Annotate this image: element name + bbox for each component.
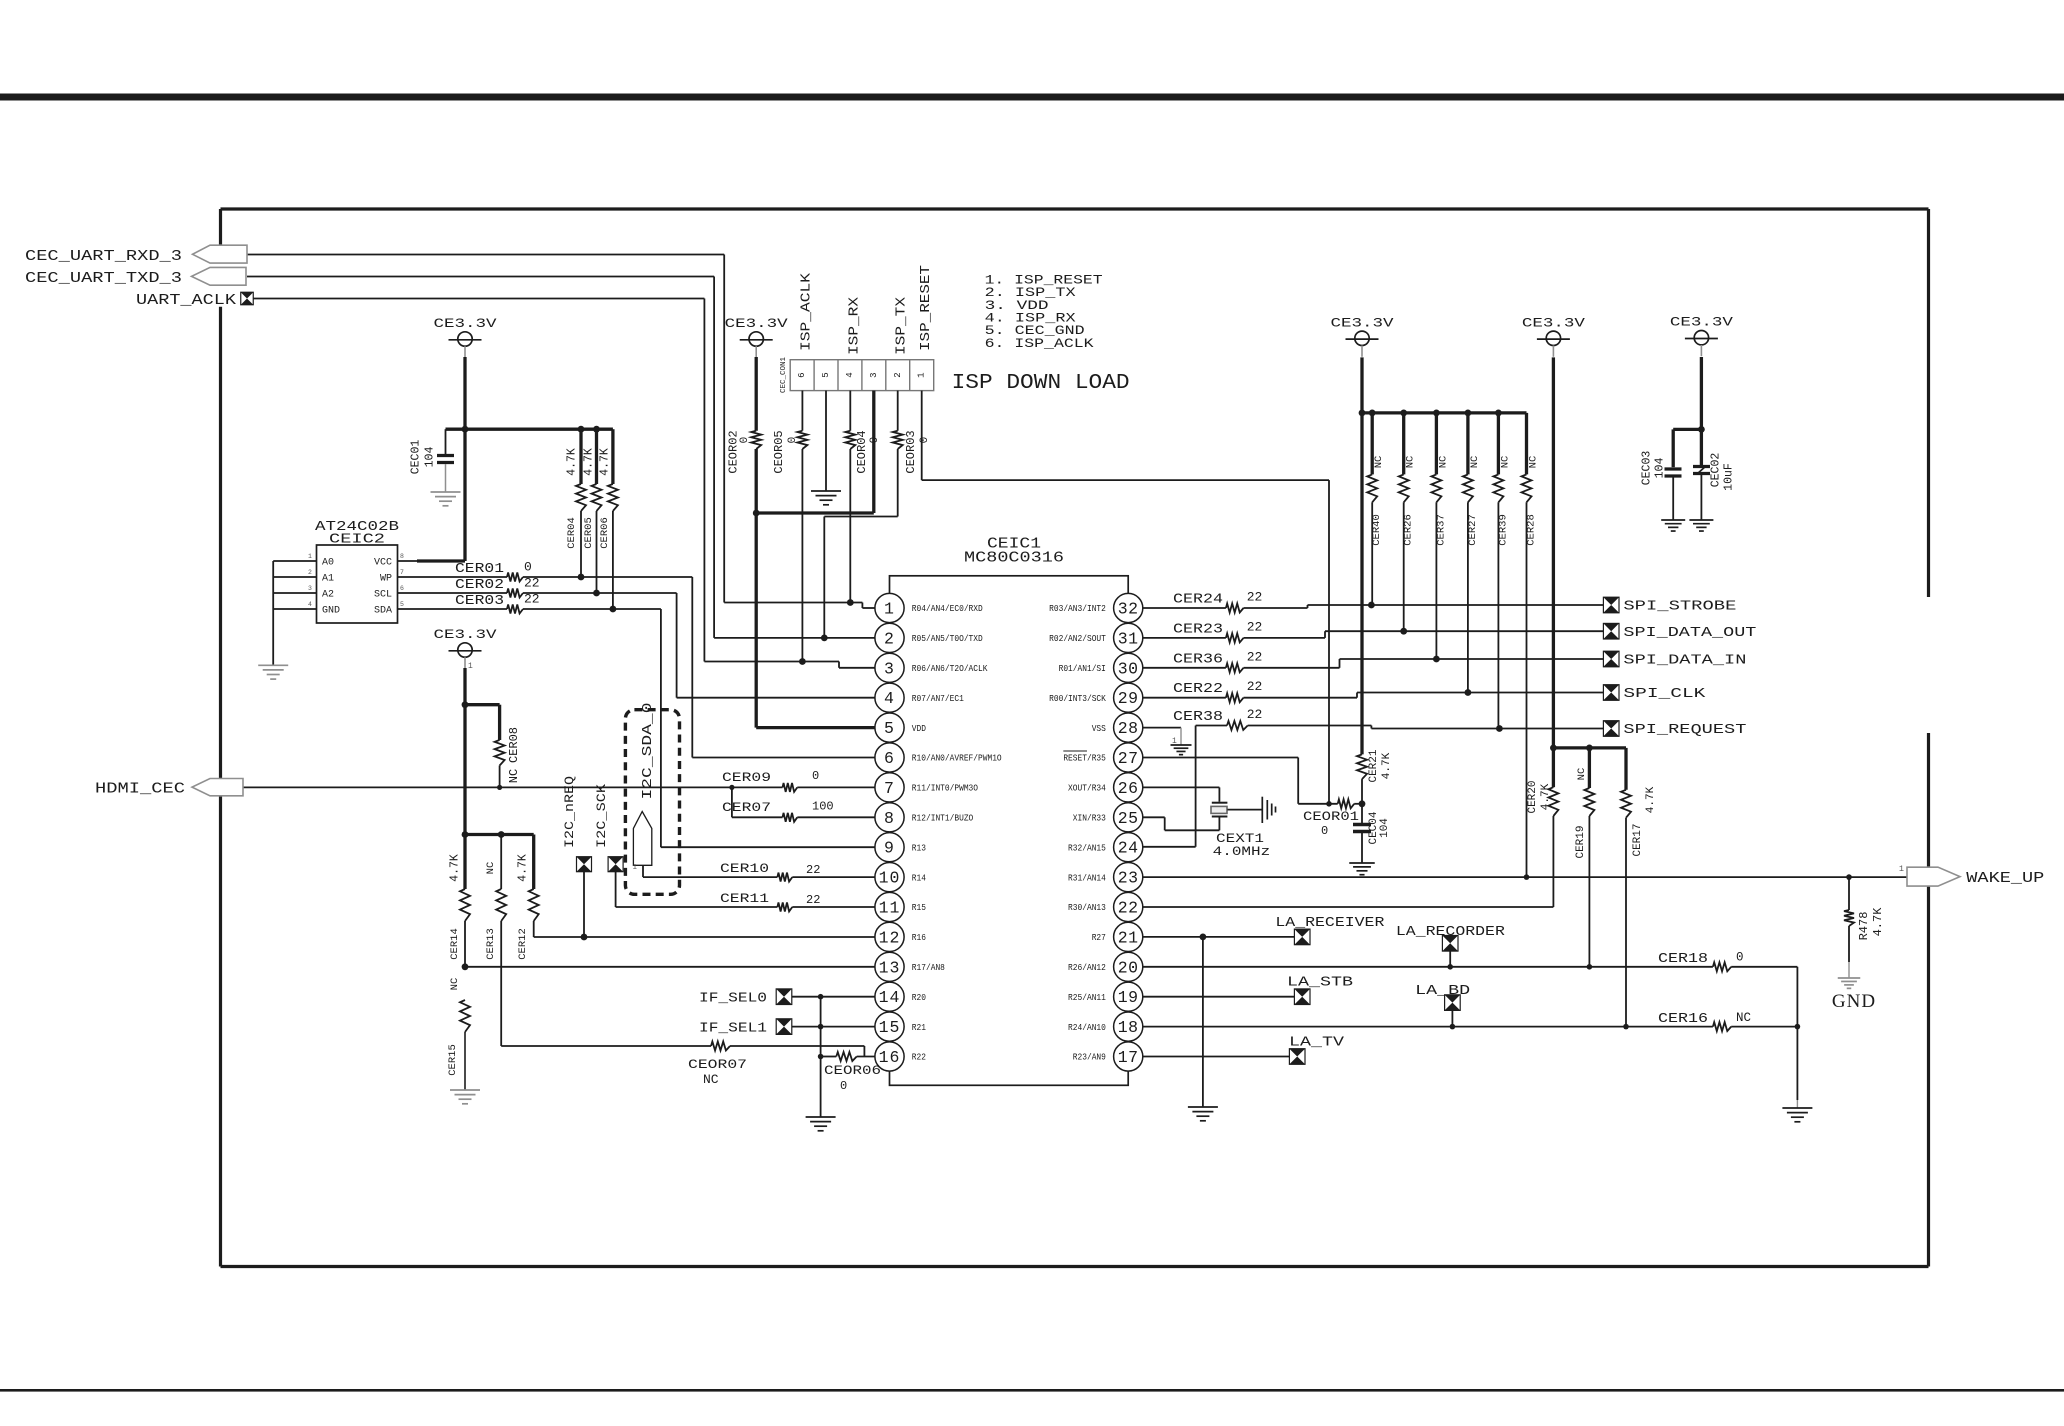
svg-text:CER23: CER23 xyxy=(1173,622,1223,637)
svg-text:R17/AN8: R17/AN8 xyxy=(912,962,945,973)
resistor CER19 NC xyxy=(1575,748,1594,970)
svg-text:4.7K: 4.7K xyxy=(599,448,612,476)
svg-text:NC: NC xyxy=(1528,456,1540,469)
wire+resistor CER22 22 / port SPI_CLK xyxy=(1143,679,1706,702)
svg-text:4.7K: 4.7K xyxy=(449,854,462,882)
svg-text:NC: NC xyxy=(449,978,461,991)
wire+resistor CER36 22 / port SPI_DATA_IN xyxy=(1143,649,1747,672)
wire connector pin5 to ground xyxy=(825,391,827,491)
wire decoupling rail (thick) xyxy=(1673,357,1705,467)
wire connector pin3 VDD (thick) xyxy=(756,391,874,513)
port I2C_SCK xyxy=(595,783,777,907)
IC CEIC1 left pins 1-16 xyxy=(875,593,1002,1071)
resistor CEOR06 0 xyxy=(818,1052,881,1093)
connector CEC_CON1 (ISP header) xyxy=(780,357,934,394)
wire pull-up branch (thick) xyxy=(465,831,534,838)
svg-text:CER02: CER02 xyxy=(455,577,504,593)
svg-text:CE3.3V: CE3.3V xyxy=(1522,316,1586,330)
svg-text:22: 22 xyxy=(1247,707,1263,722)
svg-text:NC: NC xyxy=(1576,768,1588,781)
svg-text:104: 104 xyxy=(424,447,437,468)
resistor CER11 22 (to pin11) xyxy=(720,891,875,912)
svg-text:CER20: CER20 xyxy=(1527,780,1539,813)
ground (CER15) xyxy=(450,1090,480,1104)
svg-text:NC: NC xyxy=(1437,456,1449,469)
svg-text:4.7K: 4.7K xyxy=(583,448,596,476)
bottom rule xyxy=(0,1389,2064,1392)
svg-text:CE3.3V: CE3.3V xyxy=(1670,316,1734,330)
svg-text:8: 8 xyxy=(400,553,404,560)
wire+resistor CER38 22 / port SPI_REQUEST xyxy=(1143,707,1747,847)
svg-text:R07/AN7/EC1: R07/AN7/EC1 xyxy=(912,693,964,704)
svg-text:CER21: CER21 xyxy=(1368,749,1380,782)
ground (CEC01) xyxy=(431,492,461,506)
wire CE3.3V rail (thick vertical) xyxy=(462,668,469,889)
svg-text:NC: NC xyxy=(485,862,497,875)
svg-text:ISP_RX: ISP_RX xyxy=(848,297,863,355)
resistor CEOR05 0 (ISP_ACLK series) xyxy=(772,391,807,662)
svg-text:R15: R15 xyxy=(912,902,926,913)
svg-text:LA_BD: LA_BD xyxy=(1415,984,1470,999)
wire pin17 to LA_TV xyxy=(1143,1056,1290,1058)
svg-text:0: 0 xyxy=(1321,824,1328,838)
svg-text:CER39: CER39 xyxy=(1497,514,1509,546)
wire pin19 to LA_STB xyxy=(1143,996,1295,998)
svg-text:GND: GND xyxy=(322,606,340,617)
svg-text:R11/INT0/PWM3O: R11/INT0/PWM3O xyxy=(912,783,979,794)
svg-text:R32/AN15: R32/AN15 xyxy=(1068,842,1106,853)
svg-text:R16: R16 xyxy=(912,932,926,943)
wire IF_SEL strap to ground xyxy=(820,997,822,1117)
svg-text:CER10: CER10 xyxy=(720,861,769,876)
svg-text:R26/AN12: R26/AN12 xyxy=(1068,962,1106,973)
svg-text:CEOR04: CEOR04 xyxy=(855,430,869,473)
svg-text:22: 22 xyxy=(524,576,540,591)
svg-text:4.7K: 4.7K xyxy=(1871,907,1885,937)
svg-text:3: 3 xyxy=(869,372,879,377)
svg-text:NC: NC xyxy=(1499,456,1511,469)
sheet border xyxy=(221,209,1929,1267)
svg-text:4.7K: 4.7K xyxy=(1540,783,1552,810)
ground (EEPROM A0-A2/GND) xyxy=(258,665,288,679)
svg-text:SPI_STROBE: SPI_STROBE xyxy=(1623,599,1736,615)
svg-text:10: 10 xyxy=(879,869,901,888)
svg-text:CEOR01: CEOR01 xyxy=(1303,809,1359,824)
svg-text:CER18: CER18 xyxy=(1658,952,1708,967)
svg-text:CEC03: CEC03 xyxy=(1641,451,1654,486)
svg-text:CE3.3V: CE3.3V xyxy=(434,317,498,331)
power CE3.3V (ISP rail) xyxy=(725,317,789,358)
svg-text:ISP_RESET: ISP_RESET xyxy=(919,265,934,351)
svg-text:32: 32 xyxy=(1118,600,1139,619)
svg-text:NC: NC xyxy=(1736,1011,1751,1025)
svg-text:R478: R478 xyxy=(1857,912,1871,941)
wire CE3.3V to VCC (thick) xyxy=(398,357,469,561)
svg-text:R14: R14 xyxy=(912,872,927,883)
resistor CER17 4.7K xyxy=(1621,748,1657,1030)
port WAKE_UP xyxy=(1899,864,2044,887)
wire wake rail (thick) xyxy=(1550,357,1626,751)
svg-text:CER06: CER06 xyxy=(599,517,611,549)
svg-text:SCL: SCL xyxy=(374,590,392,601)
port UART_ACLK xyxy=(136,292,253,309)
port LA_RECEIVER xyxy=(1275,916,1384,945)
svg-text:10uF: 10uF xyxy=(1723,463,1736,491)
svg-text:R27: R27 xyxy=(1092,932,1106,943)
resistor CER06 4.7K xyxy=(599,429,618,612)
port HDMI_CEC xyxy=(95,779,783,798)
ground (R478) xyxy=(1838,978,1861,988)
wire XIN pin25 to crystal xyxy=(1143,817,1220,830)
port LA_BD xyxy=(1415,984,1470,1027)
wire pull-up rail (thick) xyxy=(446,426,613,433)
wire WAKE_UP net (pin23) xyxy=(1143,874,1907,880)
svg-text:CEC_UART_TXD_3: CEC_UART_TXD_3 xyxy=(25,271,182,287)
svg-text:SPI_DATA_OUT: SPI_DATA_OUT xyxy=(1623,625,1756,641)
svg-text:11: 11 xyxy=(879,899,901,918)
svg-text:CER37: CER37 xyxy=(1435,514,1447,546)
port I2C_nREQ xyxy=(563,776,592,940)
port LA_STB xyxy=(1287,976,1353,1005)
resistor CER13 NC xyxy=(485,835,506,1047)
power CE3.3V (decoupling) xyxy=(1670,316,1734,357)
svg-text:1: 1 xyxy=(1899,864,1904,874)
svg-text:22: 22 xyxy=(806,863,820,877)
svg-text:ISP_ACLK: ISP_ACLK xyxy=(800,272,815,351)
resistor CEOR03 0 (ISP_TX series) xyxy=(824,391,931,638)
svg-text:30: 30 xyxy=(1118,659,1139,678)
svg-text:I2C_nREQ: I2C_nREQ xyxy=(563,776,577,848)
ground (CEC02) xyxy=(1689,520,1713,531)
svg-text:1: 1 xyxy=(917,372,927,377)
svg-text:31: 31 xyxy=(1118,629,1139,648)
svg-text:12: 12 xyxy=(879,928,901,947)
port IF_SEL0 xyxy=(699,989,875,1007)
svg-text:XIN/R33: XIN/R33 xyxy=(1073,813,1106,824)
svg-text:LA_RECORDER: LA_RECORDER xyxy=(1396,925,1505,940)
svg-text:CER17: CER17 xyxy=(1632,823,1644,856)
svg-text:22: 22 xyxy=(806,893,820,907)
svg-text:CE3.3V: CE3.3V xyxy=(1331,316,1395,330)
wire pin28 VSS to ground xyxy=(1143,728,1181,746)
svg-text:HDMI_CEC: HDMI_CEC xyxy=(95,782,185,798)
svg-text:4.7K: 4.7K xyxy=(566,448,579,476)
label ISP_RESET (connector pin1) xyxy=(919,265,934,351)
svg-text:1: 1 xyxy=(884,600,895,619)
port CEC_UART_RXD_3 xyxy=(25,245,247,265)
svg-text:LA_RECEIVER: LA_RECEIVER xyxy=(1275,916,1384,931)
svg-text:CER40: CER40 xyxy=(1371,514,1383,546)
svg-text:CER26: CER26 xyxy=(1403,514,1415,546)
svg-text:4.7K: 4.7K xyxy=(517,854,530,882)
svg-text:CER38: CER38 xyxy=(1173,710,1223,725)
svg-text:CER01: CER01 xyxy=(455,561,504,577)
resistor CEOR07 NC xyxy=(501,1042,864,1088)
svg-text:5: 5 xyxy=(884,719,895,738)
svg-text:0: 0 xyxy=(1736,951,1744,965)
svg-text:0: 0 xyxy=(840,1079,847,1093)
svg-text:9: 9 xyxy=(884,839,895,858)
resistor CER03 22 (SDA net) xyxy=(398,592,876,848)
svg-text:SPI_CLK: SPI_CLK xyxy=(1623,686,1706,702)
wire RESET net / resistor CEOR01 0 xyxy=(1143,758,1362,839)
svg-text:13: 13 xyxy=(879,958,901,977)
svg-text:NC: NC xyxy=(1469,456,1481,469)
offpage I2C_SDA dashed box xyxy=(625,710,679,895)
svg-text:I2C_SCK: I2C_SCK xyxy=(595,783,609,848)
svg-text:CE3.3V: CE3.3V xyxy=(725,317,789,331)
svg-text:100: 100 xyxy=(812,800,834,814)
wire pin13 net xyxy=(465,966,875,968)
resistor CER09 0 (HDMI_CEC to pin7) xyxy=(722,769,875,792)
wire EEPROM address pins to ground xyxy=(273,561,316,665)
svg-text:VDD: VDD xyxy=(912,723,927,734)
resistor CER21 4.7K (reset pull-up) xyxy=(1357,749,1393,807)
resistor CER18 0 xyxy=(1658,951,1797,1027)
ground (VSS pin28) xyxy=(1171,745,1192,755)
capacitor CEC02 10uF xyxy=(1693,453,1736,520)
resistor CEOR02 0 (in CE3.3V drop, thick leads) xyxy=(727,357,876,728)
resistor CER05 4.7K xyxy=(583,429,602,596)
wire XOUT pin26 to crystal xyxy=(1143,787,1220,801)
wire LA strap ground xyxy=(1202,937,1204,1107)
svg-text:CER04: CER04 xyxy=(566,517,578,549)
svg-text:R31/AN14: R31/AN14 xyxy=(1068,872,1106,883)
svg-text:LA_STB: LA_STB xyxy=(1287,976,1353,991)
svg-text:22: 22 xyxy=(1247,590,1263,605)
svg-text:CEC_CON1: CEC_CON1 xyxy=(780,357,788,394)
svg-text:27: 27 xyxy=(1118,749,1139,768)
power CE3.3V (EEPROM rail) xyxy=(434,317,498,358)
svg-text:20: 20 xyxy=(1118,958,1139,977)
svg-text:104: 104 xyxy=(1379,818,1391,838)
svg-text:CEC01: CEC01 xyxy=(410,440,423,475)
svg-text:2: 2 xyxy=(884,629,895,648)
svg-text:CEIC2: CEIC2 xyxy=(329,532,385,548)
svg-text:CEC_UART_RXD_3: CEC_UART_RXD_3 xyxy=(25,249,182,265)
svg-text:4: 4 xyxy=(308,601,312,608)
svg-text:25: 25 xyxy=(1118,809,1139,828)
svg-text:1: 1 xyxy=(308,553,312,560)
title ISP DOWN LOAD xyxy=(952,372,1130,395)
svg-text:NC: NC xyxy=(1373,456,1385,469)
svg-text:WAKE_UP: WAKE_UP xyxy=(1966,871,2044,887)
label ISP_ACLK (connector pin6) xyxy=(800,272,815,351)
svg-text:5: 5 xyxy=(821,372,831,377)
svg-text:22: 22 xyxy=(1247,649,1263,664)
resistor CER08 NC xyxy=(465,705,521,790)
wire pin12 net xyxy=(534,936,875,938)
svg-text:23: 23 xyxy=(1118,869,1139,888)
svg-text:29: 29 xyxy=(1118,689,1139,708)
svg-text:CER09: CER09 xyxy=(722,770,771,785)
svg-text:CER15: CER15 xyxy=(447,1044,459,1076)
ground (LA strap) xyxy=(1188,1107,1218,1121)
svg-text:CEOR03: CEOR03 xyxy=(904,430,918,473)
svg-text:4.0MHz: 4.0MHz xyxy=(1213,844,1271,859)
resistor CER10 22 (to pin10) xyxy=(643,861,875,882)
svg-text:I2C_SDA_0: I2C_SDA_0 xyxy=(641,703,656,800)
wire UART_ACLK net xyxy=(253,299,875,668)
svg-text:CER19: CER19 xyxy=(1575,825,1587,858)
capacitor CEC01 104 xyxy=(410,429,455,492)
port LA_TV xyxy=(1289,1036,1345,1065)
port CEC_UART_TXD_3 xyxy=(25,267,246,287)
svg-text:4.7K: 4.7K xyxy=(1645,786,1657,813)
svg-text:CER27: CER27 xyxy=(1467,514,1479,546)
ground (CEC04) xyxy=(1349,863,1375,875)
svg-text:CER03: CER03 xyxy=(455,593,504,609)
svg-text:IF_SEL1: IF_SEL1 xyxy=(699,1022,767,1037)
svg-text:26: 26 xyxy=(1118,779,1139,798)
IC CEIC2 AT24C02B body xyxy=(315,519,399,623)
crystal CEXT1 4.0MHz xyxy=(1211,803,1270,859)
IC CEIC1 MC80C0316 body xyxy=(890,537,1129,1086)
svg-text:R30/AN13: R30/AN13 xyxy=(1068,902,1106,913)
svg-text:6: 6 xyxy=(884,749,895,768)
svg-text:1: 1 xyxy=(632,864,637,872)
svg-text:22: 22 xyxy=(1247,619,1263,634)
svg-text:LA_TV: LA_TV xyxy=(1289,1036,1345,1051)
wire CEC_UART_TXD_3 net xyxy=(247,277,875,642)
resistor CER14 4.7K xyxy=(449,854,471,970)
svg-text:7: 7 xyxy=(884,779,895,798)
svg-text:0: 0 xyxy=(812,769,819,783)
capacitor CEC04 104 xyxy=(1353,804,1391,863)
svg-text:16: 16 xyxy=(879,1048,901,1067)
resistor R478 4.7K xyxy=(1844,877,1885,978)
svg-text:4: 4 xyxy=(884,689,895,708)
svg-text:R23/AN9: R23/AN9 xyxy=(1073,1052,1106,1063)
svg-text:0: 0 xyxy=(787,437,799,444)
svg-text:CEC02: CEC02 xyxy=(1710,453,1723,488)
resistor CER15 NC (below CER14) xyxy=(447,978,470,1090)
svg-text:NC: NC xyxy=(1405,456,1417,469)
svg-text:CEOR06: CEOR06 xyxy=(824,1063,881,1078)
svg-text:R02/AN2/SOUT: R02/AN2/SOUT xyxy=(1049,633,1106,644)
ground (IF_SEL strap) xyxy=(806,1117,836,1131)
svg-text:CER28: CER28 xyxy=(1526,514,1538,546)
svg-text:3: 3 xyxy=(308,585,312,592)
svg-text:5: 5 xyxy=(400,601,404,608)
svg-text:8: 8 xyxy=(884,809,895,828)
svg-text:RESET/R35: RESET/R35 xyxy=(1063,753,1106,764)
svg-text:UART_ACLK: UART_ACLK xyxy=(136,293,236,309)
svg-text:CER36: CER36 xyxy=(1173,652,1223,667)
resistor CER02 22 (SCL net) xyxy=(398,576,876,698)
ground (ISP CEC_GND) xyxy=(811,491,841,505)
svg-text:R25/AN11: R25/AN11 xyxy=(1068,992,1106,1003)
svg-text:CER07: CER07 xyxy=(722,800,771,815)
svg-text:1: 1 xyxy=(468,662,473,671)
svg-text:CEOR05: CEOR05 xyxy=(772,430,786,473)
svg-text:24: 24 xyxy=(1118,839,1139,858)
svg-text:CE3.3V: CE3.3V xyxy=(434,628,498,642)
svg-text:28: 28 xyxy=(1118,719,1139,738)
svg-text:R10/AN0/AVREF/PWM1O: R10/AN0/AVREF/PWM1O xyxy=(912,753,1002,764)
wire NC bank rail (thick) xyxy=(1359,357,1527,754)
svg-text:R20: R20 xyxy=(912,992,926,1003)
wire pin18 net xyxy=(1143,1024,1713,1030)
wire+resistor CER23 22 / port SPI_DATA_OUT xyxy=(1143,619,1757,642)
port IF_SEL1 xyxy=(699,1019,875,1037)
svg-text:CER12: CER12 xyxy=(517,928,529,960)
svg-text:22: 22 xyxy=(524,592,540,607)
svg-text:SDA: SDA xyxy=(374,606,392,617)
svg-text:14: 14 xyxy=(879,988,901,1007)
svg-text:6: 6 xyxy=(400,585,404,592)
svg-text:R12/INT1/BUZO: R12/INT1/BUZO xyxy=(912,813,974,824)
ground (CER18/CER16) xyxy=(1782,1108,1812,1122)
resistor CER01 0 (WP net) xyxy=(398,560,876,758)
svg-text:R00/INT3/SCK: R00/INT3/SCK xyxy=(1049,693,1106,704)
svg-text:GND: GND xyxy=(1832,991,1876,1012)
IC CEIC2 pin labels xyxy=(308,553,404,617)
svg-text:21: 21 xyxy=(1118,928,1139,947)
svg-text:NC: NC xyxy=(507,769,521,783)
power CE3.3V (HDMI pull-up rail) xyxy=(434,628,498,671)
IC CEIC1 right pins 32-17 xyxy=(1049,593,1143,1071)
svg-text:NC: NC xyxy=(703,1072,719,1087)
offpage connector I2C_SDA arrow xyxy=(632,703,656,878)
svg-text:R21: R21 xyxy=(912,1022,927,1033)
ground (CEC03) xyxy=(1661,520,1685,531)
top title-block bar xyxy=(0,94,2064,101)
power CE3.3V (wake rail) xyxy=(1522,316,1586,357)
label ISP_TX (connector pin2) xyxy=(895,297,910,355)
svg-text:R22: R22 xyxy=(912,1052,926,1063)
svg-text:IF_SEL0: IF_SEL0 xyxy=(699,992,767,1007)
svg-text:CER08: CER08 xyxy=(507,727,521,763)
wire crystal case to earth xyxy=(1227,797,1275,823)
svg-text:22: 22 xyxy=(1118,899,1139,918)
svg-text:A1: A1 xyxy=(322,574,334,585)
port LA_RECORDER xyxy=(1396,925,1505,967)
svg-text:2: 2 xyxy=(308,569,312,576)
svg-text:R24/AN10: R24/AN10 xyxy=(1068,1022,1106,1033)
svg-text:15: 15 xyxy=(879,1018,901,1037)
svg-text:R05/AN5/T0O/TXD: R05/AN5/T0O/TXD xyxy=(912,633,983,644)
svg-text:CER05: CER05 xyxy=(583,517,595,549)
svg-text:ISP_TX: ISP_TX xyxy=(895,297,910,355)
svg-text:CEOR07: CEOR07 xyxy=(688,1057,747,1072)
svg-text:6. ISP_ACLK: 6. ISP_ACLK xyxy=(985,337,1095,351)
svg-text:R04/AN4/EC0/RXD: R04/AN4/EC0/RXD xyxy=(912,603,983,614)
label ISP_RX (connector pin4) xyxy=(848,297,863,355)
resistors CER40/CER26/CER37/CER27/CER39/CER28 NC bank xyxy=(1367,410,1539,878)
svg-text:R13: R13 xyxy=(912,842,926,853)
wire pin20 net xyxy=(1143,964,1713,970)
svg-text:CER24: CER24 xyxy=(1173,593,1223,608)
svg-text:19: 19 xyxy=(1118,988,1139,1007)
wire+resistor CER24 22 / port SPI_STROBE xyxy=(1143,590,1737,615)
wire CEC_UART_RXD_3 net xyxy=(247,255,875,609)
svg-text:VCC: VCC xyxy=(374,558,392,569)
wire pin21 to LA_RECEIVER xyxy=(1143,934,1295,941)
svg-text:CER22: CER22 xyxy=(1173,682,1223,697)
svg-text:2: 2 xyxy=(893,372,903,377)
svg-text:22: 22 xyxy=(1247,679,1263,694)
svg-text:VSS: VSS xyxy=(1092,723,1107,734)
svg-text:4.7K: 4.7K xyxy=(1381,752,1393,779)
resistor CER04 4.7K xyxy=(566,429,587,580)
resistor CER12 4.7K xyxy=(517,835,539,960)
svg-text:17: 17 xyxy=(1118,1048,1139,1067)
svg-text:CER14: CER14 xyxy=(449,928,461,960)
svg-text:CER13: CER13 xyxy=(485,928,497,960)
wire ISP_RESET net xyxy=(922,391,1329,804)
svg-text:0: 0 xyxy=(739,437,751,444)
